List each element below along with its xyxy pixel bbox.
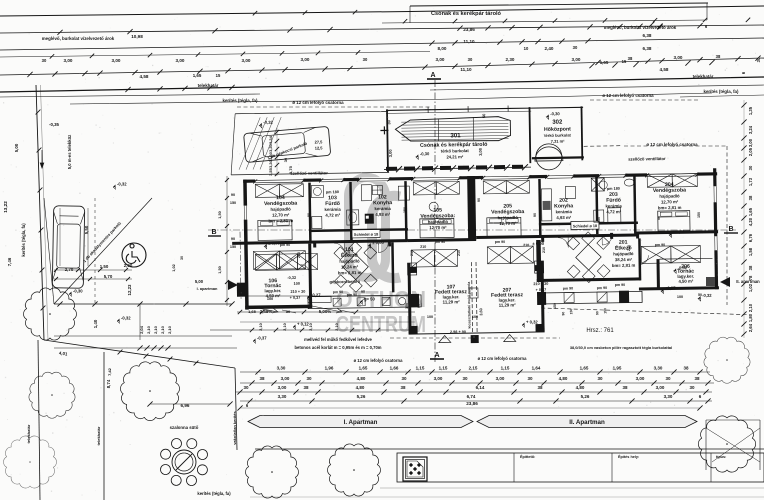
svg-text:30: 30 [527, 376, 533, 381]
svg-text:1,65: 1,65 [580, 366, 589, 371]
svg-text:3,34: 3,34 [268, 135, 273, 144]
svg-text:térkő burkolat: térkő burkolat [441, 148, 470, 153]
svg-text:3,55: 3,55 [268, 167, 273, 176]
svg-text:38: 38 [694, 376, 700, 381]
svg-text:+ 0,32: + 0,32 [526, 320, 538, 325]
svg-text:90: 90 [561, 312, 565, 316]
svg-text:-0,32: -0,32 [263, 120, 273, 125]
svg-text:bm = 2,81 m: bm = 2,81 m [268, 218, 293, 223]
svg-text:2,40: 2,40 [545, 46, 554, 51]
svg-text:szellőző ventillátor: szellőző ventillátor [628, 156, 666, 162]
svg-text:2,10: 2,10 [146, 325, 151, 334]
svg-text:B: B [211, 229, 216, 236]
svg-text:3,00: 3,00 [674, 55, 683, 60]
svg-text:90: 90 [231, 193, 235, 197]
svg-text:90: 90 [417, 304, 421, 308]
svg-text:-0,30: -0,30 [420, 151, 430, 156]
svg-text:10: 10 [524, 46, 529, 51]
svg-text:I. Apartman: I. Apartman [344, 419, 378, 426]
svg-text:10,98: 10,98 [131, 34, 143, 39]
svg-text:kerítés (tégla, fa): kerítés (tégla, fa) [21, 223, 26, 257]
svg-text:4,58: 4,58 [660, 67, 669, 72]
svg-text:30: 30 [748, 165, 753, 170]
svg-text:38: 38 [628, 56, 633, 61]
svg-text:4,50 m²: 4,50 m² [678, 279, 693, 284]
svg-text:3,00: 3,00 [636, 376, 645, 381]
svg-text:38,24 m²: 38,24 m² [615, 257, 633, 262]
svg-text:3,30: 3,30 [268, 151, 273, 160]
svg-text:3,00: 3,00 [656, 385, 665, 390]
svg-text:1,65: 1,65 [248, 309, 257, 314]
svg-text:1,73: 1,73 [748, 177, 753, 186]
svg-text:betonos acél korlát m = 0,95m: betonos acél korlát m = 0,95m és m = 0,7… [294, 345, 381, 350]
svg-text:210: 210 [410, 250, 414, 256]
svg-text:2,98 + 90: 2,98 + 90 [450, 330, 466, 334]
svg-text:30: 30 [283, 157, 288, 162]
svg-text:-0,30: -0,30 [73, 289, 83, 294]
svg-text:210: 210 [297, 252, 301, 258]
svg-text:30: 30 [689, 385, 695, 390]
svg-text:30: 30 [42, 58, 47, 63]
svg-text:pm 90: pm 90 [435, 240, 445, 244]
svg-text:3,00: 3,00 [278, 385, 287, 390]
svg-text:150: 150 [597, 217, 601, 223]
svg-text:3,00: 3,00 [572, 57, 581, 62]
svg-text:30: 30 [665, 376, 671, 381]
svg-text:2,05: 2,05 [748, 147, 753, 156]
svg-text:telekhatár: telekhatár [198, 83, 219, 88]
svg-text:+ 0,37: + 0,37 [536, 288, 547, 292]
svg-text:23,86: 23,86 [466, 401, 478, 406]
svg-text:térkő burkolat: térkő burkolat [544, 132, 571, 137]
svg-text:2,10: 2,10 [167, 325, 172, 334]
svg-text:pm 90: pm 90 [655, 243, 665, 247]
svg-text:Hrsz.: 761: Hrsz.: 761 [586, 328, 614, 334]
svg-text:30: 30 [180, 256, 184, 260]
svg-text:3,00: 3,00 [281, 376, 290, 381]
svg-text:1,15: 1,15 [439, 366, 448, 371]
svg-text:90: 90 [595, 311, 599, 315]
svg-text:hajópadló: hajópadló [428, 219, 449, 224]
svg-text:12,70 m²: 12,70 m² [429, 225, 447, 230]
svg-text:pm 90: pm 90 [280, 243, 290, 247]
svg-text:2,10: 2,10 [153, 325, 158, 334]
svg-text:3,30: 3,30 [268, 143, 273, 152]
svg-text:4,80: 4,80 [559, 376, 568, 381]
svg-text:kerámia: kerámia [324, 207, 341, 212]
svg-text:30: 30 [462, 376, 468, 381]
svg-text:3,00: 3,00 [301, 57, 310, 62]
svg-text:bm= 2,81 m: bm= 2,81 m [658, 205, 682, 210]
svg-text:8,00: 8,00 [438, 46, 447, 51]
svg-text:3,00: 3,00 [496, 376, 505, 381]
svg-text:hajópadló: hajópadló [339, 258, 360, 263]
svg-text:Schiedel ø 18: Schiedel ø 18 [354, 233, 378, 237]
svg-text:4,80: 4,80 [357, 376, 366, 381]
svg-text:vakolatlan kerítés: vakolatlan kerítés [232, 410, 237, 444]
svg-text:± 0,00: ± 0,00 [268, 241, 280, 246]
svg-text:mellvéd fel műkő fedkővel lefe: mellvéd fel műkő fedkővel lefedve [304, 337, 372, 342]
svg-text:30: 30 [597, 376, 603, 381]
svg-text:7,46: 7,46 [7, 257, 12, 266]
svg-text:3,00: 3,00 [478, 147, 483, 156]
svg-text:pm 90: pm 90 [347, 293, 357, 297]
svg-text:210: 210 [627, 245, 631, 251]
svg-text:30: 30 [573, 45, 578, 50]
svg-text:150: 150 [230, 245, 236, 249]
svg-text:2,10: 2,10 [335, 323, 339, 330]
svg-text:100: 100 [267, 297, 273, 301]
svg-text:hajópadló: hajópadló [659, 193, 680, 198]
svg-text:38: 38 [748, 265, 753, 270]
svg-text:38: 38 [716, 54, 721, 59]
svg-text:23,86: 23,86 [463, 27, 475, 32]
svg-text:A: A [434, 352, 439, 359]
svg-text:+0,37: +0,37 [665, 285, 676, 290]
svg-text:pm 90: pm 90 [563, 286, 573, 290]
svg-text:30: 30 [306, 376, 312, 381]
svg-text:1,15: 1,15 [501, 366, 510, 371]
svg-text:pm 90: pm 90 [495, 240, 505, 244]
svg-text:kerítés (tégla, fa): kerítés (tégla, fa) [197, 491, 231, 496]
svg-text:2,10: 2,10 [259, 323, 263, 330]
svg-text:6,38: 6,38 [643, 33, 652, 38]
svg-text:1,65: 1,65 [359, 366, 368, 371]
svg-text:hajópadló: hajópadló [498, 215, 519, 220]
svg-text:13,22: 13,22 [3, 201, 8, 213]
svg-text:3,30: 3,30 [654, 366, 663, 371]
svg-text:4,20: 4,20 [748, 217, 753, 226]
svg-text:telekhatár: telekhatár [96, 426, 101, 445]
svg-text:150: 150 [553, 303, 557, 309]
svg-text:Csónak és kerékpár tároló: Csónak és kerékpár tároló [431, 11, 502, 17]
svg-text:ø 12 cm lefolyó csatorna: ø 12 cm lefolyó csatorna [478, 356, 528, 361]
svg-text:2,30: 2,30 [506, 57, 515, 62]
svg-text:-0,02: -0,02 [678, 265, 688, 270]
svg-text:2,64: 2,64 [748, 323, 753, 332]
svg-text:38,0/30,0 cm vasbeton pillér r: 38,0/30,0 cm vasbeton pillér ragasztott … [570, 345, 672, 350]
svg-text:3,30: 3,30 [278, 394, 287, 399]
svg-text:kicsúsztatható mobil pergola: kicsúsztatható mobil pergola [467, 282, 472, 329]
svg-text:12,23: 12,23 [127, 284, 132, 296]
svg-text:90: 90 [657, 216, 661, 220]
svg-text:3,00: 3,00 [242, 58, 251, 63]
svg-text:38: 38 [537, 385, 543, 390]
svg-text:1,02: 1,02 [748, 283, 753, 292]
svg-text:78: 78 [748, 275, 753, 280]
svg-text:38: 38 [748, 195, 753, 200]
svg-text:150: 150 [405, 303, 409, 309]
svg-text:1,65: 1,65 [600, 60, 609, 65]
svg-text:1,95: 1,95 [613, 366, 622, 371]
svg-text:3,00: 3,00 [176, 58, 185, 63]
svg-text:-0,32: -0,32 [117, 182, 127, 187]
svg-text:1,50: 1,50 [218, 266, 222, 273]
svg-text:2,10: 2,10 [309, 323, 313, 330]
svg-text:± 0,00: ± 0,00 [673, 229, 685, 234]
svg-text:6,76: 6,76 [748, 233, 753, 242]
svg-text:-0,32: -0,32 [702, 293, 712, 298]
svg-text:pm 90: pm 90 [597, 286, 607, 290]
svg-text:27,5: 27,5 [315, 139, 324, 144]
svg-text:3,30: 3,30 [664, 394, 673, 399]
svg-text:pm 180: pm 180 [607, 187, 620, 191]
svg-text:kerámia: kerámia [605, 203, 622, 208]
svg-text:210: 210 [457, 250, 461, 256]
svg-text:+ 0,12: + 0,12 [297, 322, 309, 327]
svg-text:210: 210 [420, 245, 426, 249]
svg-text:kerámia: kerámia [374, 206, 391, 211]
svg-text:90: 90 [477, 198, 481, 202]
svg-text:-0,30: -0,30 [550, 111, 560, 116]
svg-text:50: 50 [698, 293, 702, 297]
svg-text:100: 100 [472, 315, 478, 319]
svg-text:5,00: 5,00 [14, 143, 19, 152]
svg-text:150: 150 [603, 308, 607, 314]
svg-text:301: 301 [450, 133, 461, 139]
svg-text:24,21 m²: 24,21 m² [446, 154, 463, 159]
svg-text:bm= 2,81 m: bm= 2,81 m [612, 263, 636, 268]
svg-text:5,26: 5,26 [357, 394, 366, 399]
svg-text:150: 150 [403, 207, 407, 213]
svg-text:150: 150 [697, 212, 701, 218]
svg-text:pm 90: pm 90 [333, 290, 343, 294]
svg-text:4,93 m²: 4,93 m² [556, 215, 571, 220]
svg-text:1,15: 1,15 [416, 366, 425, 371]
svg-text:kerámia: kerámia [556, 209, 573, 214]
svg-text:1,40: 1,40 [93, 319, 98, 328]
svg-text:3,24: 3,24 [748, 125, 753, 134]
svg-text:2,10: 2,10 [160, 325, 165, 334]
svg-text:100: 100 [294, 282, 300, 286]
svg-text:90: 90 [361, 290, 365, 294]
svg-text:1,80: 1,80 [748, 313, 753, 322]
svg-text:3,00: 3,00 [388, 149, 393, 158]
svg-text:100: 100 [427, 315, 433, 319]
svg-text:90: 90 [533, 213, 537, 217]
svg-text:1,96: 1,96 [325, 366, 334, 371]
svg-text:-0,32: -0,32 [121, 316, 131, 321]
svg-text:30: 30 [401, 376, 407, 381]
svg-text:3,30: 3,30 [268, 159, 273, 168]
svg-text:pm 180: pm 180 [326, 190, 339, 194]
svg-text:90: 90 [541, 304, 545, 308]
svg-text:típus:: típus: [716, 455, 726, 459]
svg-text:8,74: 8,74 [106, 379, 111, 388]
svg-text:30: 30 [363, 57, 368, 62]
svg-text:15: 15 [622, 59, 627, 64]
svg-text:90: 90 [307, 213, 311, 217]
svg-text:+ 0,37: + 0,37 [290, 296, 301, 300]
svg-text:4,58: 4,58 [140, 74, 149, 79]
svg-text:150: 150 [569, 309, 573, 315]
svg-text:30: 30 [468, 57, 473, 62]
svg-text:7,31 m²: 7,31 m² [551, 139, 566, 144]
svg-text:1,65: 1,65 [748, 207, 753, 216]
svg-text:1,35: 1,35 [748, 106, 753, 115]
svg-text:12,70 m²: 12,70 m² [499, 221, 517, 226]
svg-text:30: 30 [286, 309, 291, 314]
svg-text:38: 38 [400, 385, 406, 390]
svg-text:3,00: 3,00 [64, 58, 73, 63]
svg-text:-0,35: -0,35 [49, 122, 60, 127]
svg-text:2,15: 2,15 [469, 366, 478, 371]
svg-text:11,10: 11,10 [463, 39, 475, 44]
svg-text:2,10: 2,10 [748, 303, 753, 312]
svg-text:38: 38 [683, 366, 689, 371]
svg-text:g= 50: g= 50 [364, 297, 375, 302]
svg-text:II. Apartman: II. Apartman [569, 419, 605, 426]
svg-text:1,50: 1,50 [100, 264, 109, 269]
svg-text:5,0 m-es telekköz: 5,0 m-es telekköz [67, 135, 72, 169]
svg-text:210: 210 [542, 247, 546, 253]
svg-text:1,58: 1,58 [748, 247, 753, 256]
svg-text:4,80: 4,80 [356, 385, 365, 390]
svg-text:-0,27: -0,27 [311, 293, 321, 298]
svg-text:Építtető:: Építtető: [520, 454, 535, 459]
svg-text:telekhatár: telekhatár [693, 74, 714, 79]
svg-text:30: 30 [756, 57, 761, 62]
svg-text:38: 38 [303, 385, 309, 390]
svg-text:4,80: 4,80 [576, 385, 585, 390]
svg-text:210: 210 [523, 243, 529, 247]
svg-text:meglévő, burkolat vízelvezető: meglévő, burkolat vízelvezető árok [42, 36, 115, 41]
svg-text:6,38: 6,38 [643, 46, 652, 51]
svg-text:12,5: 12,5 [315, 145, 324, 150]
svg-text:3,60: 3,60 [479, 308, 483, 315]
svg-text:1,66: 1,66 [390, 366, 399, 371]
svg-text:1,50: 1,50 [218, 211, 222, 218]
svg-text:4,72 m²: 4,72 m² [325, 213, 340, 218]
svg-text:3,00: 3,00 [112, 58, 121, 63]
svg-text:3,30: 3,30 [277, 366, 286, 371]
svg-text:30: 30 [243, 385, 249, 390]
svg-text:Építés hely:: Építés hely: [618, 454, 639, 459]
svg-text:210 + 30: 210 + 30 [533, 282, 548, 286]
svg-text:pm 90: pm 90 [615, 283, 625, 287]
svg-text:3,00: 3,00 [434, 376, 443, 381]
svg-text:szellőző ventillátor: szellőző ventillátor [290, 170, 328, 176]
svg-text:gépkocsibejáró: gépkocsibejáró [329, 279, 360, 284]
svg-text:210 + 30: 210 + 30 [290, 290, 305, 294]
svg-text:6,74: 6,74 [467, 394, 476, 399]
svg-text:7,42: 7,42 [107, 367, 112, 376]
svg-text:1,75: 1,75 [288, 165, 293, 174]
svg-text:18,24 m²: 18,24 m² [341, 264, 359, 269]
svg-text:3,00: 3,00 [436, 57, 445, 62]
svg-text:bm= 2,81 m: bm= 2,81 m [338, 270, 362, 275]
svg-text:15: 15 [216, 73, 221, 78]
svg-text:6,14: 6,14 [476, 385, 485, 390]
svg-text:12,70 m²: 12,70 m² [661, 199, 679, 204]
svg-text:302: 302 [552, 120, 563, 126]
svg-text:210: 210 [347, 250, 351, 256]
svg-text:szalonna sütő: szalonna sütő [170, 425, 199, 430]
svg-text:telekhatár: telekhatár [26, 424, 31, 443]
svg-text:150: 150 [230, 201, 236, 205]
svg-text:38: 38 [259, 376, 265, 381]
svg-text:5,00%: 5,00% [319, 309, 332, 314]
svg-text:-0,37: -0,37 [257, 336, 267, 341]
svg-text:2,10: 2,10 [283, 323, 287, 330]
svg-text:11,29 m²: 11,29 m² [499, 302, 517, 307]
svg-text:5,00: 5,00 [195, 279, 204, 284]
svg-text:2,48%: 2,48% [260, 309, 273, 314]
svg-text:12,70 m²: 12,70 m² [272, 212, 290, 217]
svg-text:-0,32: -0,32 [287, 276, 296, 280]
svg-text:hajópadló: hajópadló [270, 207, 291, 212]
svg-text:5,70: 5,70 [104, 274, 113, 279]
svg-text:B: B [728, 226, 733, 233]
svg-text:Schiedel ø 18: Schiedel ø 18 [573, 224, 597, 228]
svg-text:1,64: 1,64 [532, 366, 541, 371]
svg-text:I. apartman: I. apartman [197, 286, 218, 291]
svg-text:4,72 m²: 4,72 m² [606, 209, 621, 214]
svg-text:3,00: 3,00 [748, 138, 753, 147]
svg-text:38: 38 [622, 385, 628, 390]
svg-text:A: A [430, 72, 435, 79]
svg-text:11,29 m²: 11,29 m² [443, 299, 461, 304]
svg-text:1,02: 1,02 [172, 264, 176, 271]
svg-text:ø 12 cm lefolyó csatorna: ø 12 cm lefolyó csatorna [354, 358, 404, 363]
svg-text:100: 100 [677, 295, 683, 299]
svg-text:5,26: 5,26 [581, 394, 590, 399]
svg-text:4,93 m²: 4,93 m² [375, 212, 390, 217]
svg-text:11,10: 11,10 [460, 67, 472, 72]
